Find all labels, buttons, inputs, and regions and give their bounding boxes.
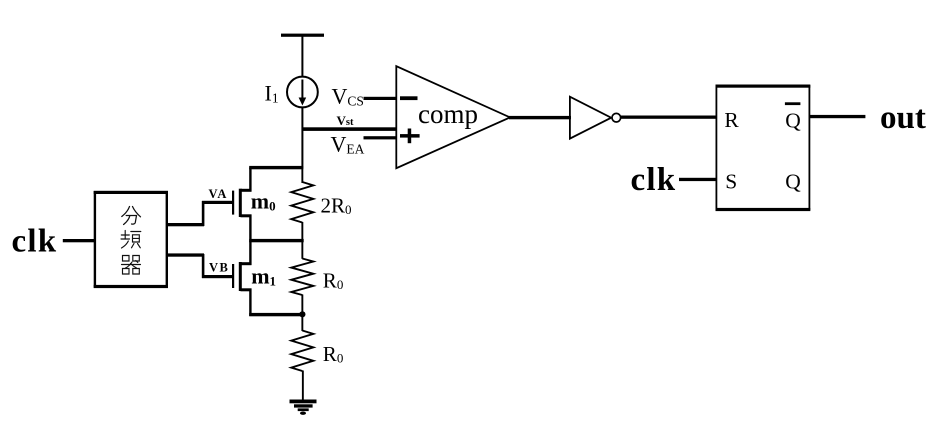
divider box (frequency divider) (94, 191, 168, 288)
resistor R0 upper (291, 259, 313, 296)
svg-text:S: S (725, 169, 737, 193)
svg-text:VB: VB (209, 261, 229, 275)
wire rail to current source (301, 36, 303, 77)
comparator minus marking (400, 96, 418, 100)
svg-text:m1: m1 (251, 264, 276, 289)
svg-text:out: out (880, 100, 926, 136)
svg-text:I1: I1 (265, 81, 279, 106)
svg-text:clk: clk (631, 162, 677, 198)
junction dot (299, 311, 305, 317)
resistor R0 lower (291, 331, 313, 372)
wire clk to divider (63, 239, 95, 242)
wire node to resistor 2R0 (301, 168, 303, 183)
node vst wire to comparator plus (302, 127, 397, 131)
svg-text:VEA: VEA (331, 132, 365, 157)
wire VA riser (202, 201, 205, 226)
transistor m0 (232, 168, 252, 242)
divider char qi (122, 256, 141, 275)
inverter U2 (570, 97, 611, 139)
op-amp comparator U1 (396, 66, 510, 168)
wire gate m1 (202, 275, 233, 278)
transistor m1 (232, 241, 252, 316)
pin Qbar (785, 102, 801, 132)
wire VB dropper (202, 254, 205, 278)
wire gate m0 (202, 201, 233, 204)
wire divider to VA node (167, 223, 204, 226)
comparator plus marking (400, 129, 420, 144)
wire R0a to junction (301, 295, 303, 316)
svg-text:Vst: Vst (337, 113, 354, 128)
svg-text:R0: R0 (323, 342, 344, 366)
wire m0 source m1 drain to node (249, 239, 304, 242)
svg-text:comp: comp (418, 99, 478, 129)
svg-text:VA: VA (209, 187, 228, 201)
svg-text:m0: m0 (251, 188, 276, 213)
svg-text:clk: clk (12, 224, 58, 260)
resistor 2R0 (291, 182, 313, 223)
svg-text:Q: Q (785, 169, 801, 193)
divider char pin (121, 231, 141, 249)
wire Qbar to out (809, 115, 865, 118)
wire R0b to ground (302, 371, 304, 401)
svg-text:2R0: 2R0 (321, 194, 352, 218)
svg-text:VCS: VCS (332, 84, 364, 109)
svg-text:R: R (724, 108, 739, 132)
wire comparator to inverter (509, 116, 571, 119)
SR latch U3 box (716, 85, 811, 212)
svg-text:Q: Q (785, 109, 801, 133)
wire VEA to comparator (364, 136, 397, 139)
wire junction to R0b (301, 315, 303, 331)
wire current source to node (301, 107, 303, 168)
divider char fen (122, 207, 141, 225)
power rail VDD bar (281, 34, 324, 37)
current source I1 (287, 77, 318, 108)
wire divider to VB node (167, 253, 204, 256)
wire inverter to latch R (621, 116, 717, 119)
wire clk to S (679, 178, 717, 181)
svg-text:R0: R0 (323, 269, 344, 293)
wire 2R0 to R0a (301, 222, 303, 259)
ground (290, 400, 317, 415)
inverter bubble (612, 113, 621, 122)
wire m0 drain to node (249, 166, 303, 169)
wire VCS to comparator minus (364, 97, 397, 100)
wire m1 source to junction (249, 313, 303, 316)
